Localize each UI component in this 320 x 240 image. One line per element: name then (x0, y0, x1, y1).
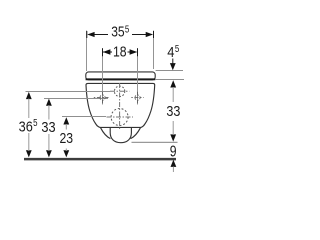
svg-text:9: 9 (170, 144, 177, 161)
svg-text:18: 18 (113, 45, 127, 61)
svg-text:36: 36 (19, 120, 33, 136)
svg-text:33: 33 (166, 104, 180, 120)
svg-text:5: 5 (175, 44, 180, 55)
svg-text:5: 5 (33, 118, 38, 129)
svg-text:35: 35 (111, 24, 124, 40)
svg-text:23: 23 (60, 131, 74, 147)
svg-text:5: 5 (125, 24, 130, 35)
svg-text:4: 4 (167, 45, 174, 61)
svg-text:33: 33 (41, 120, 55, 136)
